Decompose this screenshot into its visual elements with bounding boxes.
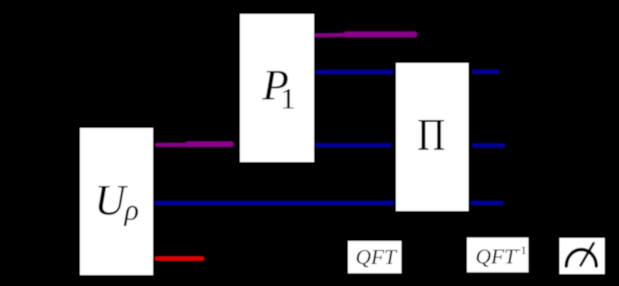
svg-text:U: U [95, 178, 129, 225]
measurement meter needle [581, 243, 594, 265]
wire q0 purple segment thick [346, 32, 415, 38]
gate P1 box [240, 14, 314, 162]
svg-text:Π: Π [417, 112, 445, 161]
svg-text:1: 1 [281, 83, 296, 116]
svg-text:ρ: ρ [124, 194, 139, 227]
svg-text:QFT: QFT [476, 245, 519, 269]
svg-text:QFT: QFT [356, 245, 399, 269]
gate U_rho box [80, 128, 153, 275]
wire q2 purple segment thick [188, 141, 231, 146]
wire q3 blue segment right of Pi [473, 201, 502, 205]
wire q1 blue segment right of Pi [474, 70, 498, 74]
wire q2 purple segment thin (from U_rho right edge) [157, 143, 194, 147]
gate Pi box [396, 63, 469, 211]
svg-text:1: 1 [521, 243, 527, 257]
measurement meter arc [566, 250, 596, 267]
measurement meter box [560, 238, 605, 274]
wire q4 red segment from U_rho [157, 256, 202, 260]
wire q3 blue segment U_rho to Pi [156, 201, 392, 205]
gate QFT inverse box [467, 238, 528, 273]
wire q2 blue segment P1 to Pi [317, 143, 390, 147]
wire q0 purple segment thin (from P1 right edge) [316, 33, 354, 37]
wire q2 blue segment right of Pi [474, 144, 503, 148]
gate QFT box [348, 241, 401, 273]
wire q1 blue segment P1 to Pi [317, 70, 392, 74]
